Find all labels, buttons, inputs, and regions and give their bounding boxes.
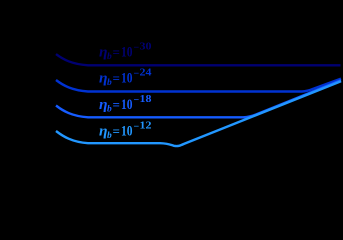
svg-text:24: 24 [140, 68, 153, 79]
svg-text:10: 10 [121, 123, 133, 139]
svg-text:=: = [113, 97, 120, 112]
svg-text:10: 10 [121, 97, 133, 113]
label 2: eta_b = 10^-24 [99, 68, 152, 89]
curve 2: eta_b = 10^-24 (blue), flat then rises joining equilibrium [56, 79, 341, 92]
svg-text:10: 10 [121, 71, 133, 87]
label 1: eta_b = 10^-30 [99, 42, 152, 63]
curve 1: eta_b = 10^-30 (dark navy), freeze-out flat line [56, 54, 341, 65]
label 3: eta_b = 10^-18 [99, 94, 152, 115]
svg-text:b: b [107, 78, 112, 88]
svg-text:30: 30 [140, 42, 152, 53]
label 4: eta_b = 10^-12 [99, 120, 152, 141]
svg-text:=: = [113, 123, 120, 138]
svg-text:b: b [107, 131, 112, 141]
svg-text:=: = [113, 71, 120, 86]
curve 4: eta_b = 10^-12 (azure), flat, slight dip, then equilibrium diagonal [56, 81, 341, 146]
svg-text:12: 12 [140, 120, 152, 131]
svg-text:10: 10 [121, 45, 133, 61]
svg-text:b: b [107, 104, 112, 114]
svg-text:=: = [113, 45, 120, 60]
svg-text:18: 18 [140, 94, 152, 105]
curve 3: eta_b = 10^-18 (vivid blue), flat then rises joining equilibrium [56, 80, 341, 117]
svg-text:b: b [107, 52, 112, 62]
